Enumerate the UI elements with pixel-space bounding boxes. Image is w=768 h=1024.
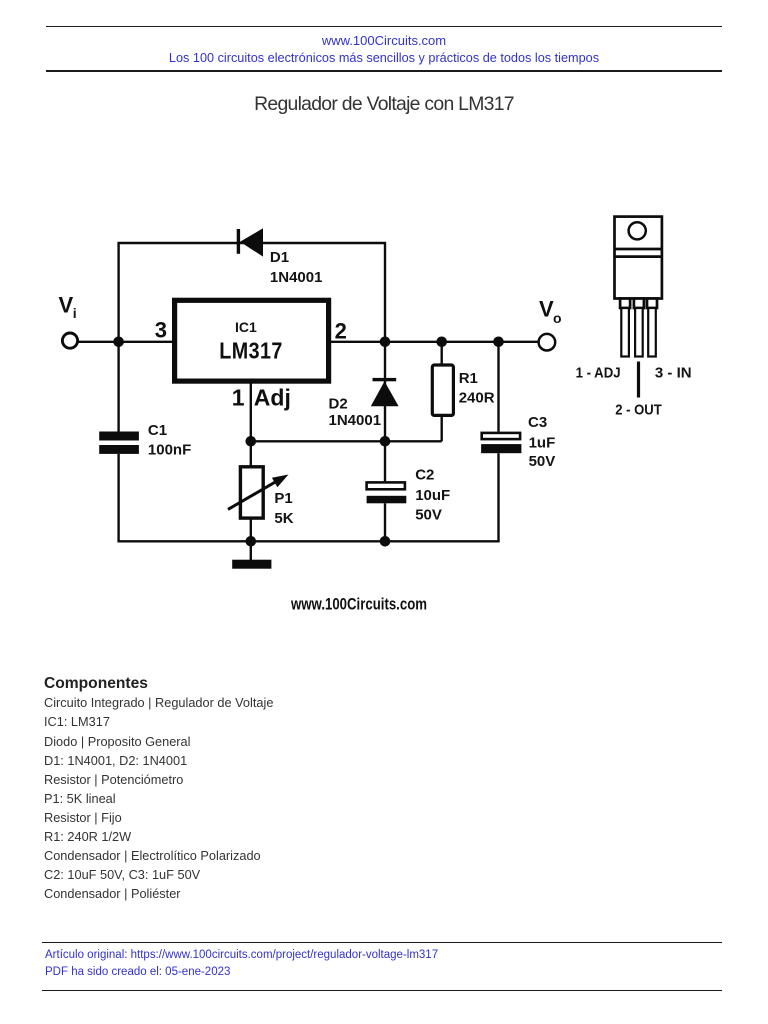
svg-text:1uF: 1uF — [529, 434, 556, 451]
label R1 value 240R — [459, 389, 495, 406]
junction: output rail / C3 branch — [493, 337, 504, 348]
op-amp IC1 box LM317 — [175, 300, 329, 381]
ground — [232, 541, 271, 568]
capacitor C2 (polarized) — [367, 482, 407, 503]
svg-text:240R: 240R — [459, 389, 495, 406]
label Vi — [59, 293, 77, 321]
svg-text:100nF: 100nF — [148, 442, 191, 459]
wire: left vertical branch (C1 branch) — [117, 342, 119, 543]
label LM317 — [219, 337, 283, 363]
label P1 value 5K — [274, 510, 293, 527]
potentiometer P1 arrow — [228, 475, 289, 510]
label P1 — [274, 490, 292, 507]
svg-text:3: 3 — [155, 318, 167, 343]
wire: D2 branch vertical — [384, 342, 386, 442]
label D2 — [329, 395, 348, 412]
label IC1 — [235, 319, 257, 335]
terminal Vi — [62, 333, 77, 348]
label C1 value 100nF — [148, 442, 191, 459]
label R1 — [459, 370, 478, 387]
diode D2 — [371, 378, 399, 406]
footer article line — [45, 947, 438, 963]
header slogan text — [0, 50, 768, 66]
label C2 voltage 50V — [415, 507, 442, 524]
TO-220 mounting hole — [629, 222, 646, 239]
svg-text:C1: C1 — [148, 422, 167, 439]
wire: adj pin down — [250, 381, 252, 441]
footer bottom rule — [42, 990, 722, 992]
svg-text:10uF: 10uF — [415, 487, 450, 504]
label C2 value 10uF — [415, 487, 450, 504]
junction: ground rail / C2 — [380, 536, 391, 547]
svg-text:1N4001: 1N4001 — [270, 269, 323, 286]
label C3 voltage 50V — [529, 453, 556, 470]
svg-text:C3: C3 — [528, 414, 547, 431]
label pin 2 OUT — [615, 402, 662, 419]
label C3 value 1uF — [529, 434, 556, 451]
svg-text:2: 2 — [335, 318, 347, 343]
svg-text:1N4001: 1N4001 — [329, 412, 382, 429]
diode D1 — [237, 228, 263, 256]
page title — [0, 93, 768, 116]
wire: P1 branch — [250, 441, 252, 542]
svg-text:LM317: LM317 — [219, 337, 283, 363]
pin 2 label — [335, 318, 347, 343]
label Adj — [254, 384, 291, 410]
watermark www.100Circuits.com — [290, 596, 427, 614]
svg-text:1: 1 — [232, 384, 245, 410]
svg-text:1 - ADJ: 1 - ADJ — [576, 365, 621, 382]
TO-220 pin 2 pointer line — [637, 362, 640, 398]
svg-text:Adj: Adj — [254, 384, 291, 410]
junction: output rail / R1 branch — [436, 337, 447, 348]
pin 1 label — [232, 384, 245, 410]
svg-text:IC1: IC1 — [235, 319, 257, 335]
label D2 value 1N4001 — [329, 412, 382, 429]
header bottom rule — [46, 70, 722, 72]
junction: Vi rail / C1 branch — [113, 337, 124, 348]
svg-text:5K: 5K — [274, 510, 293, 527]
svg-text:V: V — [539, 297, 554, 322]
svg-text:3 - IN: 3 - IN — [655, 365, 692, 382]
svg-text:P1: P1 — [274, 490, 292, 507]
wire: C3 branch vertical — [497, 342, 499, 543]
wire: input rail Vi to IC pin3 — [78, 341, 175, 343]
wire: top loop wire — [119, 243, 385, 340]
header top rule — [46, 26, 722, 27]
junction: ground rail / P1 — [246, 536, 257, 547]
capacitor C3 (polarized) — [481, 433, 521, 453]
label C2 — [415, 466, 434, 483]
wire: C2 branch below adj rail — [384, 441, 386, 542]
resistor R1 body — [432, 365, 453, 415]
svg-text:www.100Circuits.com: www.100Circuits.com — [290, 596, 427, 614]
potentiometer P1 body — [240, 467, 263, 518]
junction: adj rail / P1 — [246, 436, 257, 447]
svg-text:D1: D1 — [270, 249, 289, 266]
junction: adj rail / D2-C2 — [380, 436, 391, 447]
wire: output rail IC pin2 to Vo — [329, 341, 538, 343]
label C3 — [528, 414, 547, 431]
TO-220 pin 1 leg — [620, 299, 630, 357]
svg-text:50V: 50V — [415, 507, 442, 524]
junction: output rail / D1-D2 branch — [380, 337, 391, 348]
svg-text:V: V — [59, 293, 74, 318]
wire: adj horizontal rail — [251, 440, 442, 442]
label pin 3 IN — [655, 365, 692, 382]
Componentes heading — [44, 675, 148, 693]
svg-text:50V: 50V — [529, 453, 556, 470]
label pin 1 ADJ — [576, 365, 621, 382]
components list — [44, 693, 273, 903]
capacitor C1 — [99, 432, 139, 454]
svg-text:R1: R1 — [459, 370, 478, 387]
label Vo — [539, 297, 562, 327]
wire: bottom ground rail — [119, 540, 499, 542]
svg-text:o: o — [553, 310, 562, 326]
label D1 value 1N4001 — [270, 269, 323, 286]
TO-220 package outline — [615, 217, 662, 299]
resistor R1 leads — [441, 342, 443, 442]
footer date line — [45, 964, 230, 980]
label C1 — [148, 422, 167, 439]
TO-220 pin 3 leg — [647, 299, 657, 357]
TO-220 pin 2 leg — [634, 299, 644, 357]
label D1 — [270, 249, 289, 266]
svg-text:i: i — [73, 305, 77, 321]
svg-text:C2: C2 — [415, 466, 434, 483]
header url text — [0, 33, 768, 48]
footer top rule — [42, 942, 722, 944]
svg-text:D2: D2 — [329, 395, 348, 412]
svg-text:2 - OUT: 2 - OUT — [615, 402, 662, 419]
pin 3 label — [155, 318, 167, 343]
terminal Vo — [539, 334, 556, 351]
